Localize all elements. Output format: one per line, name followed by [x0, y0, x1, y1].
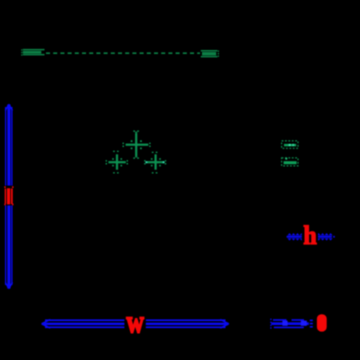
svg-text:w: w [127, 305, 144, 340]
svg-text:h: h [303, 220, 316, 251]
